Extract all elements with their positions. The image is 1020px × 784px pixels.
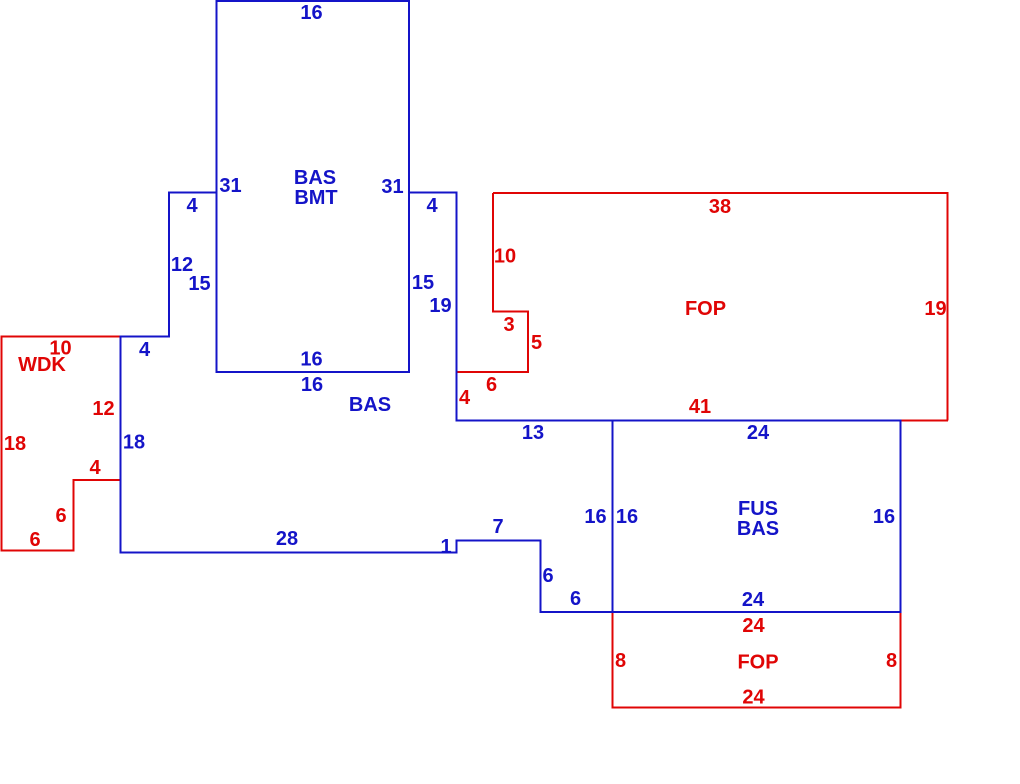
svg-text:10: 10	[494, 246, 516, 268]
svg-text:16: 16	[873, 506, 895, 528]
svg-text:16: 16	[300, 349, 322, 371]
svg-text:FOP: FOP	[685, 298, 726, 320]
svg-text:1: 1	[440, 536, 451, 558]
wire: red FOP upper-right outline	[457, 193, 949, 421]
svg-text:12: 12	[92, 398, 114, 420]
svg-text:BMT: BMT	[294, 187, 337, 209]
svg-text:BAS: BAS	[737, 518, 779, 540]
svg-text:6: 6	[542, 565, 553, 587]
svg-text:WDK: WDK	[18, 354, 66, 376]
svg-text:18: 18	[4, 433, 26, 455]
svg-text:4: 4	[89, 457, 101, 479]
svg-text:BAS: BAS	[349, 394, 391, 416]
svg-text:31: 31	[219, 175, 241, 197]
svg-text:BAS: BAS	[294, 167, 336, 189]
svg-text:24: 24	[742, 589, 765, 611]
svg-text:6: 6	[486, 374, 497, 396]
wire: blue BMT rectangle	[217, 1, 410, 372]
svg-text:16: 16	[616, 506, 638, 528]
svg-text:13: 13	[522, 422, 544, 444]
svg-text:24: 24	[742, 687, 765, 709]
svg-text:31: 31	[381, 176, 403, 198]
svg-text:6: 6	[29, 529, 40, 551]
svg-text:8: 8	[886, 650, 897, 672]
svg-text:4: 4	[459, 387, 471, 409]
svg-text:16: 16	[301, 374, 323, 396]
svg-text:19: 19	[924, 298, 946, 320]
svg-text:15: 15	[188, 273, 210, 295]
svg-text:FUS: FUS	[738, 498, 778, 520]
svg-text:6: 6	[55, 505, 66, 527]
svg-text:4: 4	[426, 195, 438, 217]
svg-text:19: 19	[429, 295, 451, 317]
svg-text:4: 4	[186, 195, 198, 217]
svg-text:5: 5	[531, 332, 542, 354]
svg-text:28: 28	[276, 528, 298, 550]
svg-text:7: 7	[492, 516, 503, 538]
svg-text:16: 16	[300, 2, 322, 24]
svg-text:4: 4	[139, 339, 151, 361]
wire: red WDK outline	[2, 337, 121, 551]
wire: blue FUS/BAS divider	[612, 421, 614, 613]
wire: red bottom FOP outline	[613, 612, 901, 708]
svg-text:16: 16	[584, 506, 606, 528]
svg-text:8: 8	[615, 650, 626, 672]
svg-text:15: 15	[412, 272, 434, 294]
svg-text:FOP: FOP	[737, 652, 778, 674]
wire: blue BAS main outline	[121, 193, 901, 613]
svg-text:24: 24	[742, 615, 765, 637]
svg-text:3: 3	[503, 314, 514, 336]
svg-text:24: 24	[747, 422, 770, 444]
svg-text:41: 41	[689, 396, 711, 418]
svg-text:18: 18	[123, 432, 145, 454]
svg-text:6: 6	[570, 588, 581, 610]
svg-text:38: 38	[709, 196, 731, 218]
